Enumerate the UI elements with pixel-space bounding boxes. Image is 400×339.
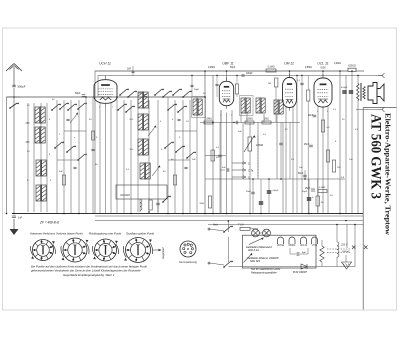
capacitor C3 bbox=[138, 92, 147, 97]
fuse F1 bbox=[240, 227, 250, 230]
label values left bbox=[27, 105, 52, 182]
capacitor C22 8uF bbox=[290, 248, 308, 256]
svg-text:220 V: 220 V bbox=[340, 244, 348, 247]
svg-text:50µF: 50µF bbox=[302, 191, 308, 193]
wire bbox=[345, 76, 347, 214]
capacitor C30 bbox=[91, 149, 94, 150]
svg-text:UCL 11: UCL 11 bbox=[317, 62, 328, 66]
wire bbox=[33, 103, 35, 212]
capacitor C23 bbox=[131, 66, 134, 76]
antenna A1 bbox=[6, 64, 22, 88]
resistor R18 bbox=[318, 187, 327, 193]
svg-text:AT 560 GWK 3: AT 560 GWK 3 bbox=[367, 114, 383, 199]
svg-text:UY11: UY11 bbox=[312, 245, 318, 247]
wire mains top bbox=[208, 228, 224, 231]
svg-text:NRL 824: NRL 824 bbox=[250, 259, 261, 263]
power box bbox=[243, 235, 317, 268]
resistor R19 bbox=[62, 175, 65, 185]
switch S8b mains bbox=[223, 261, 233, 268]
wire bbox=[40, 103, 42, 212]
svg-text:350: 350 bbox=[26, 141, 31, 144]
coil box bbox=[116, 185, 167, 199]
wire bbox=[285, 107, 287, 214]
IF transformer IFT2 bbox=[240, 96, 254, 116]
switch S2d bbox=[77, 103, 87, 110]
wire bbox=[227, 237, 229, 262]
wire bbox=[92, 97, 94, 214]
svg-text:2M: 2M bbox=[268, 83, 271, 85]
node bbox=[191, 75, 358, 76]
svg-text:Netzspannungswähler: Netzspannungswähler bbox=[251, 271, 277, 275]
coil L1/L2 pair bbox=[35, 106, 45, 124]
switch S-ant bbox=[9, 103, 19, 109]
heater UBF11 bbox=[289, 237, 297, 247]
wire bbox=[339, 71, 341, 214]
wire bbox=[191, 76, 193, 97]
node bbox=[6, 70, 356, 225]
label 0,0003 bbox=[120, 194, 131, 197]
wire bbox=[257, 123, 259, 180]
arrow trimmer bbox=[70, 112, 78, 123]
arrow osc1 bbox=[152, 165, 160, 176]
IF transformer IFT3 bbox=[256, 97, 265, 114]
wire bbox=[157, 100, 159, 212]
wire bbox=[27, 103, 29, 212]
wire bbox=[57, 159, 79, 161]
svg-text:UCH11: UCH11 bbox=[277, 245, 285, 247]
svg-text:2nF: 2nF bbox=[127, 68, 132, 71]
wire bbox=[212, 76, 214, 214]
label sockets1 bbox=[29, 232, 56, 236]
capacitor C24 bbox=[215, 76, 218, 98]
svg-text:32Ω 0,1A: 32Ω 0,1A bbox=[248, 248, 259, 252]
capacitor C1 500pF bbox=[12, 85, 26, 89]
svg-text:1MΩ: 1MΩ bbox=[264, 119, 269, 121]
bus inner top bbox=[98, 75, 382, 77]
svg-text:UM 11: UM 11 bbox=[284, 62, 294, 66]
text block line1 bbox=[31, 265, 147, 269]
wire bbox=[189, 100, 191, 214]
resistor R3 0,3M bbox=[204, 119, 213, 125]
capacitor C7 bbox=[218, 122, 222, 214]
bus y216 bbox=[95, 215, 363, 217]
switch S5f bbox=[177, 106, 187, 113]
label Netz bbox=[213, 224, 219, 227]
switch S4d bbox=[125, 106, 135, 113]
svg-text:Antennen-Verkürzst.: Antennen-Verkürzst. bbox=[29, 232, 56, 236]
text heiz4 bbox=[250, 259, 261, 263]
switch S5d bbox=[182, 91, 192, 98]
maker Elektro-Apparate-Werke Treptow bbox=[384, 113, 392, 236]
svg-text:25nF: 25nF bbox=[246, 191, 252, 193]
label misc right bbox=[330, 109, 359, 197]
label 50pF bbox=[203, 93, 206, 95]
heater UCL11 bbox=[300, 237, 308, 247]
coil L15 bbox=[140, 199, 142, 212]
svg-text:Rückkopplung roter Punkt: Rückkopplung roter Punkt bbox=[89, 232, 121, 236]
svg-text:500pF: 500pF bbox=[18, 85, 26, 89]
svg-text:Heizfaden-Widerstand: Heizfaden-Widerstand bbox=[246, 245, 272, 249]
switch S3b bbox=[66, 146, 76, 153]
svg-text:Elektro-Apparate-Werke, Trepto: Elektro-Apparate-Werke, Treptow bbox=[384, 113, 392, 236]
tube UCL11 bbox=[314, 74, 332, 110]
svg-text:Gegenlauf: Gegenlauf bbox=[162, 247, 165, 259]
wire bbox=[148, 100, 150, 212]
jack fork top bbox=[378, 73, 385, 78]
wire bbox=[174, 100, 176, 214]
divider line vertical bbox=[362, 108, 364, 310]
bus y179 bbox=[205, 178, 345, 180]
svg-text:Kernmarkierung: Kernmarkierung bbox=[179, 261, 197, 264]
label UM11 bbox=[284, 62, 294, 66]
svg-text:6250Ω: 6250Ω bbox=[348, 65, 356, 68]
wire bbox=[7, 96, 21, 98]
bus power bottom bbox=[228, 266, 355, 268]
text block line3 bbox=[63, 273, 115, 277]
selector arrow bbox=[249, 237, 264, 244]
electrolytic C20 50uF bbox=[267, 179, 279, 214]
arrow to B5 bbox=[153, 249, 162, 251]
resistor R8 bbox=[268, 78, 278, 87]
capacitor C25 bbox=[190, 85, 193, 86]
tube UCH11 bbox=[94, 76, 117, 107]
capacitor C6 bbox=[233, 121, 238, 125]
resistor R13 6250 bbox=[348, 65, 356, 72]
wire bbox=[246, 113, 248, 123]
resistor R4 0,2M bbox=[245, 119, 254, 125]
switch S2a bbox=[51, 104, 61, 111]
wire y109 bbox=[356, 109, 378, 111]
switch S5a bbox=[154, 89, 164, 96]
title AT 560 GWK 3 bbox=[367, 114, 383, 199]
svg-text:50pF: 50pF bbox=[194, 89, 200, 91]
svg-text:Oszillator gelber Punkt: Oszillator gelber Punkt bbox=[126, 232, 154, 236]
wire bbox=[205, 155, 226, 157]
switch S5e bbox=[167, 104, 177, 111]
wire bbox=[220, 110, 222, 123]
socket B4 bbox=[123, 238, 152, 263]
label UCH11 bbox=[99, 62, 111, 66]
speaker LS bbox=[368, 83, 384, 104]
text heiz3 bbox=[247, 256, 279, 260]
wire bbox=[110, 103, 112, 214]
label misc top bbox=[208, 63, 341, 69]
jack C2 bbox=[232, 169, 254, 173]
resistor R10 bbox=[321, 120, 330, 132]
dashed pot line bbox=[257, 136, 259, 178]
wire UM11 top bbox=[289, 71, 291, 78]
label sockets4 bbox=[126, 232, 154, 236]
wire bbox=[322, 110, 324, 214]
capacitor C9 bbox=[298, 170, 307, 179]
choke DR1 bbox=[337, 225, 339, 267]
svg-text:0,1MΩ: 0,1MΩ bbox=[267, 66, 274, 69]
wire bbox=[240, 113, 242, 123]
svg-text:0,2MΩ: 0,2MΩ bbox=[208, 67, 215, 69]
jack C3 bbox=[232, 176, 250, 180]
capacitor C29 bbox=[184, 167, 187, 168]
capacitor C18 25nF bbox=[246, 179, 255, 214]
svg-text:0,5MΩ: 0,5MΩ bbox=[256, 144, 263, 147]
switch S4a bbox=[119, 89, 129, 96]
wire left rail bbox=[6, 97, 8, 214]
wire bbox=[63, 100, 65, 214]
diode D1 bbox=[301, 264, 307, 269]
resistor R14 1M bbox=[199, 196, 211, 208]
wire bbox=[64, 130, 86, 132]
coil L7/L8 pair bbox=[36, 184, 46, 202]
electrolytic C16 bbox=[349, 91, 353, 93]
resistor R2 bbox=[149, 200, 152, 210]
resistor R9 bbox=[307, 76, 310, 214]
text gleich2 bbox=[251, 271, 277, 275]
wire bbox=[317, 106, 319, 214]
capacitor C10 bbox=[279, 122, 283, 179]
wire bbox=[346, 225, 348, 249]
coil det bbox=[274, 99, 283, 115]
wire bbox=[289, 123, 291, 180]
wire bbox=[130, 100, 132, 214]
switch S2c bbox=[67, 104, 77, 111]
label values oscA bbox=[126, 119, 166, 173]
bus B+ top bbox=[95, 70, 348, 72]
svg-text:UBF 11: UBF 11 bbox=[222, 62, 233, 66]
wire bbox=[263, 114, 265, 123]
svg-text:1nF: 1nF bbox=[18, 217, 23, 220]
capacitor C28 bbox=[177, 119, 180, 120]
svg-text:50pF: 50pF bbox=[230, 67, 236, 69]
label values leftB bbox=[59, 119, 98, 173]
electrolytic C19 bbox=[259, 179, 263, 214]
wire bbox=[220, 110, 222, 214]
switch S3a bbox=[54, 142, 64, 149]
arrow osc2 bbox=[148, 125, 156, 136]
wire bbox=[345, 221, 347, 256]
coil L3/L4 pair bbox=[35, 126, 45, 144]
label 100pF2 bbox=[194, 89, 200, 91]
label 220V bbox=[340, 244, 348, 247]
svg-text:250: 250 bbox=[26, 122, 31, 125]
label rectifier bbox=[293, 270, 307, 274]
potentiometer P1 bbox=[244, 135, 263, 152]
switch S7 bbox=[162, 196, 171, 203]
coil L9/L10 pair bbox=[138, 91, 148, 109]
svg-text:1MΩ: 1MΩ bbox=[199, 203, 204, 205]
wire bbox=[78, 100, 80, 214]
svg-text:+50µF: +50µF bbox=[272, 190, 279, 192]
jack fork bottom bbox=[378, 107, 385, 112]
resistor R12 bbox=[332, 160, 341, 172]
lamp LP1 bbox=[252, 229, 260, 237]
wire bbox=[56, 100, 58, 214]
svg-text:UCL11: UCL11 bbox=[300, 245, 308, 247]
wire bbox=[249, 123, 251, 214]
svg-text:0,2MΩ: 0,2MΩ bbox=[334, 63, 341, 65]
capacitor C8 bbox=[220, 167, 229, 172]
svg-text:50pF: 50pF bbox=[75, 92, 81, 95]
wire stage1 right bbox=[204, 71, 206, 214]
wire right power bbox=[354, 225, 356, 267]
label UCL11 bbox=[317, 62, 328, 66]
heater UY11 bbox=[312, 237, 319, 247]
dashed caps bbox=[327, 249, 351, 253]
ground GND bbox=[10, 219, 19, 235]
label ZF bbox=[39, 221, 60, 225]
switch S6b bbox=[175, 146, 185, 153]
switch S4c bbox=[117, 104, 127, 111]
electrolytic C21 bbox=[307, 179, 314, 214]
divider line horizontal bbox=[363, 107, 396, 109]
coil L13/L14 pair bbox=[138, 138, 148, 156]
bus y122 bbox=[200, 122, 300, 124]
label 250 bbox=[26, 122, 31, 125]
text heiz2 bbox=[248, 248, 259, 252]
svg-text:0,3MΩ: 0,3MΩ bbox=[205, 119, 212, 121]
text heiz1 bbox=[246, 245, 272, 249]
switch S4b bbox=[127, 91, 137, 98]
wire bbox=[321, 240, 323, 267]
capacitor C12 bbox=[308, 115, 316, 117]
wire UCL11 top bbox=[322, 71, 324, 78]
wire bbox=[282, 123, 284, 214]
svg-text:T 0,8: T 0,8 bbox=[238, 224, 244, 227]
svg-text:25nF: 25nF bbox=[304, 144, 310, 146]
capacitor C26 bbox=[66, 119, 69, 120]
svg-text:1nF: 1nF bbox=[299, 167, 303, 169]
resistor R11 bbox=[326, 150, 329, 162]
socket B2 bbox=[61, 238, 89, 262]
resistor R7 0,1M bbox=[266, 66, 276, 73]
capacitor C13 bbox=[304, 144, 313, 147]
wire UBF11 top bbox=[226, 71, 228, 81]
wire bbox=[327, 106, 329, 214]
bus y224 bbox=[208, 224, 363, 226]
x mark 2 bbox=[364, 246, 368, 250]
wire bbox=[85, 97, 87, 214]
wire bbox=[231, 110, 233, 214]
resistor R5 1M bbox=[262, 119, 271, 125]
label misc mid bbox=[216, 129, 303, 169]
svg-text:50pF: 50pF bbox=[298, 173, 304, 175]
switch S6c bbox=[186, 152, 196, 159]
arrow heiz bbox=[244, 253, 253, 263]
svg-text:0,1MΩ: 0,1MΩ bbox=[319, 187, 326, 189]
svg-text:20nF: 20nF bbox=[308, 115, 314, 117]
wire bbox=[196, 97, 198, 214]
tube UBF11 bbox=[219, 77, 233, 108]
capacitor C17 1nF bbox=[12, 216, 23, 220]
bus y97 bbox=[7, 96, 206, 98]
svg-text:25nF: 25nF bbox=[305, 188, 311, 190]
svg-text:C: C bbox=[248, 162, 250, 166]
svg-text:1nF: 1nF bbox=[192, 159, 196, 161]
wire bbox=[123, 100, 125, 214]
coil L5/L6 pair bbox=[36, 159, 46, 177]
svg-text:3000pF: 3000pF bbox=[342, 251, 350, 253]
wire bbox=[137, 100, 139, 212]
wire bbox=[242, 123, 244, 180]
socket B1 bbox=[31, 240, 56, 261]
wire lamp link bbox=[259, 232, 262, 234]
coil L13b/L14b pair bbox=[140, 162, 150, 180]
switch S6a bbox=[164, 142, 174, 149]
switch S8a mains bbox=[223, 221, 233, 233]
svg-text:6250: 6250 bbox=[320, 67, 326, 70]
resistor R1 bbox=[92, 131, 99, 140]
svg-text:100pF: 100pF bbox=[246, 73, 253, 75]
lamp LP2 bbox=[263, 229, 271, 237]
heater UCH11 bbox=[277, 237, 285, 247]
svg-text:8µF: 8µF bbox=[302, 252, 306, 254]
bus y220 bbox=[95, 220, 363, 222]
label pin numbers bbox=[99, 107, 329, 117]
svg-text:8+8µF: 8+8µF bbox=[341, 87, 348, 89]
socket B3 bbox=[93, 239, 119, 261]
svg-text:5nF: 5nF bbox=[222, 167, 226, 169]
bus chassis y213 bbox=[12, 213, 363, 215]
label 50uF bbox=[302, 191, 308, 193]
wire bbox=[351, 71, 353, 214]
svg-text:Netz: Netz bbox=[213, 224, 219, 227]
wire stage1 left bbox=[95, 71, 98, 214]
electrolytic C15 bbox=[342, 91, 346, 93]
label sockets3 bbox=[89, 232, 121, 236]
label values oscB bbox=[171, 119, 196, 161]
svg-text:UCH 11: UCH 11 bbox=[99, 62, 111, 66]
resistor R20 bbox=[173, 175, 176, 185]
label UBF11 bbox=[222, 62, 233, 66]
wire bbox=[167, 97, 169, 214]
capacitor C5 bbox=[241, 73, 253, 76]
text gleich1 bbox=[251, 267, 281, 271]
wire bbox=[175, 130, 197, 132]
x mark 1 bbox=[352, 246, 356, 250]
jack C1 bbox=[232, 162, 250, 166]
label 2nF bbox=[127, 68, 132, 71]
wire bbox=[105, 106, 107, 214]
wire bbox=[70, 100, 72, 214]
wire antenna down bbox=[13, 88, 15, 214]
switch S5c bbox=[172, 89, 182, 96]
ground chassis hatched bbox=[342, 255, 352, 269]
svg-text:1nF: 1nF bbox=[349, 159, 353, 161]
output transformer TR1 bbox=[357, 83, 366, 101]
switch S2b bbox=[59, 103, 69, 110]
label B5 bbox=[179, 261, 197, 264]
text block line2 bbox=[31, 269, 141, 273]
svg-text:B 03 U609T: B 03 U609T bbox=[293, 270, 307, 274]
svg-text:ZF = 468 kHz: ZF = 468 kHz bbox=[39, 221, 60, 225]
wire bbox=[226, 113, 228, 214]
svg-text:C Ta: C Ta bbox=[248, 169, 254, 173]
label 3502 bbox=[26, 141, 31, 144]
label 30pF bbox=[52, 99, 55, 101]
svg-text:Heißleiter-Widerst. 100Ω/W: Heißleiter-Widerst. 100Ω/W bbox=[247, 256, 279, 260]
svg-text:0,5MΩ: 0,5MΩ bbox=[305, 67, 312, 69]
wire bbox=[276, 114, 278, 179]
svg-text:5nF: 5nF bbox=[238, 131, 242, 133]
resistor R15 zig bbox=[320, 246, 324, 262]
svg-text:5nF: 5nF bbox=[59, 171, 63, 173]
wire mains bottom bbox=[208, 262, 224, 265]
resistor R16 bbox=[235, 76, 238, 98]
label T08 bbox=[238, 224, 244, 227]
switch S5b bbox=[162, 91, 172, 98]
coil L11/L12 pair bbox=[138, 113, 148, 131]
svg-text:UBF11: UBF11 bbox=[289, 245, 297, 247]
svg-text:Nur für Gleichstrom 220V: Nur für Gleichstrom 220V bbox=[251, 267, 281, 271]
svg-text:Vorkreis blauer Punkt: Vorkreis blauer Punkt bbox=[56, 232, 83, 236]
